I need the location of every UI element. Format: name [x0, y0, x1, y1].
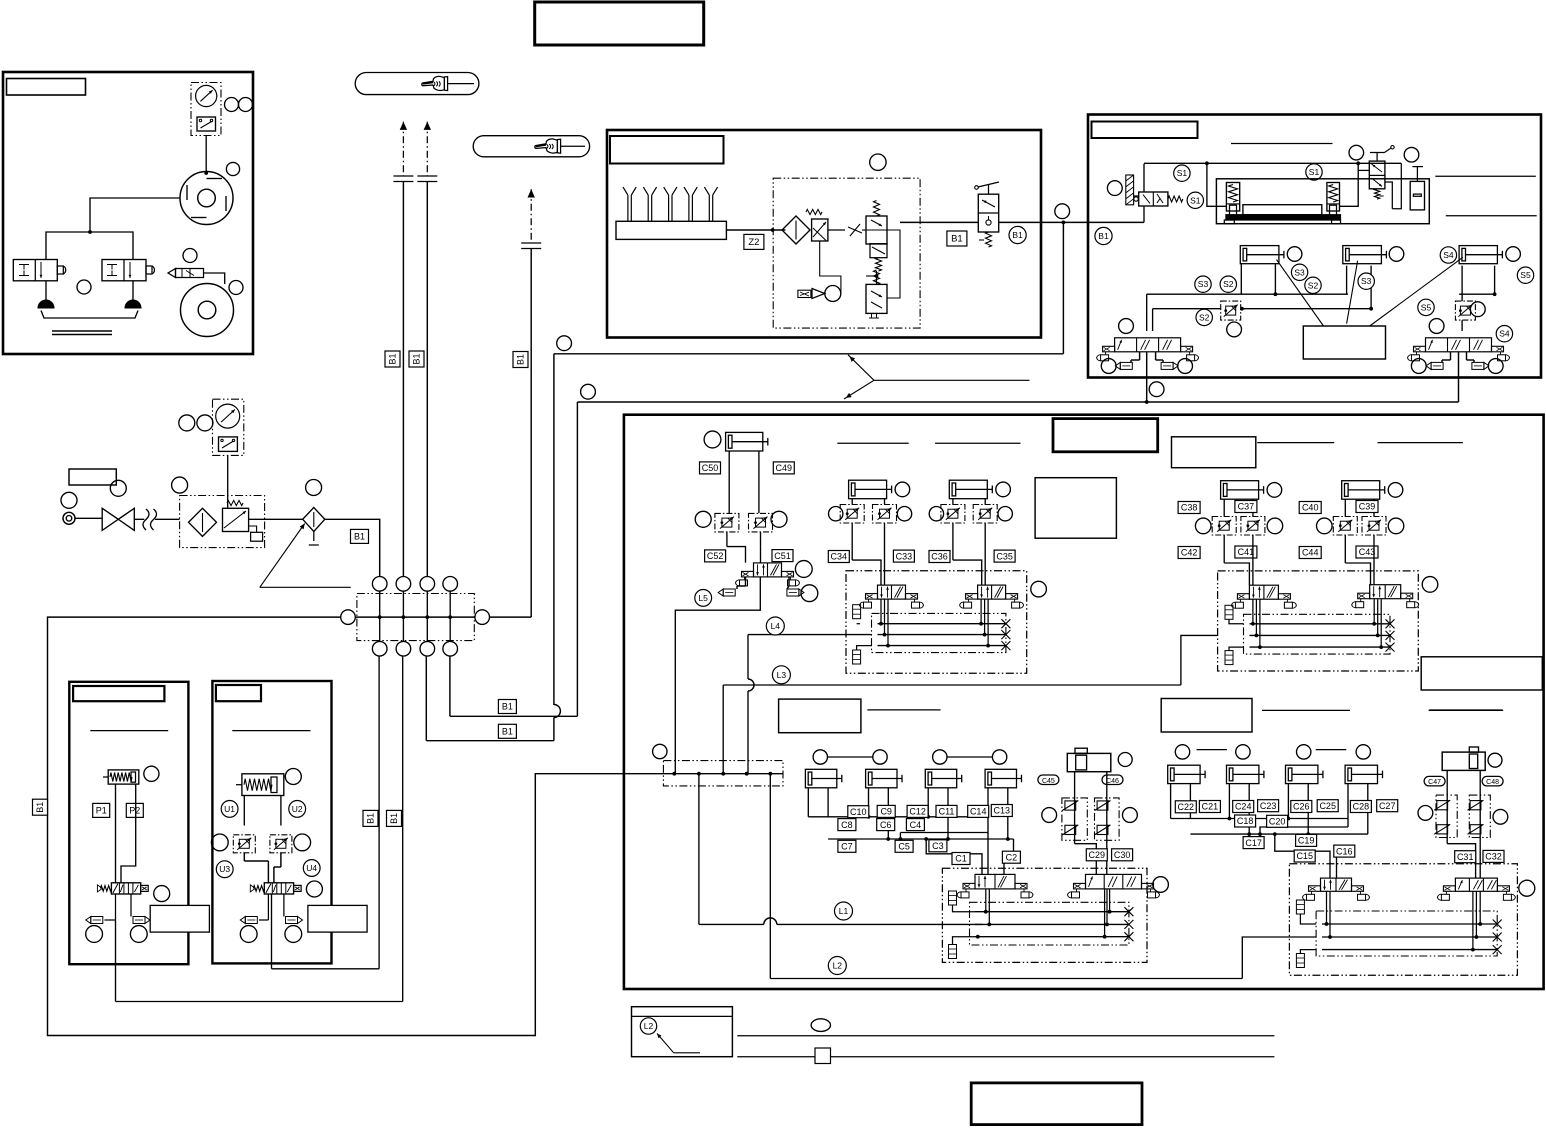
C labels left cluster [848, 806, 869, 818]
B1 riser 2 (to manifold port3 top) [426, 182, 428, 577]
small cylinder [1410, 181, 1424, 210]
manifold left port [341, 610, 356, 625]
bus plug X [1386, 619, 1395, 628]
flow controls [1333, 517, 1357, 536]
wire B1 inside box [1089, 221, 1144, 223]
manifold port 2 top [396, 577, 411, 592]
svg-text:C7: C7 [841, 842, 853, 852]
pointer lines [1277, 260, 1324, 326]
label box U [216, 685, 261, 701]
svg-text:L1: L1 [839, 906, 849, 916]
svg-text:B1: B1 [502, 727, 513, 737]
svg-text:B1: B1 [366, 813, 376, 824]
regulator [223, 508, 249, 531]
svg-text:C19: C19 [1298, 836, 1315, 846]
B1 label [351, 529, 369, 543]
small cylinder 1345 [1345, 765, 1377, 783]
ladder wires right cluster [1170, 784, 1172, 819]
wire to blower [204, 273, 225, 284]
maintenance unit dash-dot box [773, 178, 920, 328]
L distribution manifold dash-dot [663, 761, 783, 786]
manifold port 1 top [372, 577, 387, 592]
valve outputs [1326, 891, 1328, 924]
legend ellipse [811, 1019, 830, 1032]
B1 circled left [1095, 227, 1112, 244]
svg-text:U3: U3 [219, 864, 230, 874]
svg-text:C26: C26 [1293, 802, 1310, 812]
manifold port 4 bottom [443, 641, 458, 656]
wire gauge to pump [205, 136, 207, 173]
cylinder at 1221 [1221, 481, 1259, 500]
bus plug X [1001, 619, 1010, 628]
balloon [1107, 181, 1122, 196]
bus plug X [1386, 643, 1395, 652]
svg-text:S5: S5 [1421, 302, 1432, 312]
svg-text:C35: C35 [996, 551, 1013, 561]
filter-regulator dash-dot [180, 496, 265, 548]
balloon above [870, 154, 886, 170]
manifold port 3 bottom [420, 641, 435, 656]
U1 U2 balloons [221, 801, 238, 818]
drop wires to clamp [1207, 163, 1227, 206]
svg-text:C6: C6 [880, 820, 892, 830]
L4 wire (bus2 ext) [748, 634, 872, 636]
wire pump to valves [90, 198, 180, 232]
valve U [253, 886, 264, 892]
blank rect mid-left [1035, 478, 1116, 539]
valve C51 [754, 563, 782, 577]
manifold port 1 bottom [372, 641, 387, 656]
svg-text:C31: C31 [1457, 852, 1474, 862]
cylinder at 949 [949, 480, 987, 499]
svg-text:P2: P2 [129, 806, 140, 816]
B1 arrow line 3 [530, 189, 532, 243]
bus plug X [1001, 630, 1010, 639]
valve group bottom-right [1289, 864, 1517, 976]
manifold right port [475, 610, 490, 625]
hand pointer note 2 [473, 136, 589, 157]
valve P [100, 886, 111, 892]
main station box (bottom) [624, 415, 1544, 989]
svg-text:C51: C51 [774, 551, 791, 561]
valve wire to S1 net [1358, 169, 1369, 171]
svg-text:C38: C38 [1181, 503, 1198, 513]
mufflers [1296, 900, 1304, 914]
valve C1/C2 [975, 874, 1015, 889]
clamp piston right [1327, 183, 1340, 212]
FC columns [1062, 798, 1087, 840]
svg-text:S2: S2 [1308, 280, 1319, 290]
svg-text:S1: S1 [1190, 195, 1201, 205]
transfer unit box U [212, 681, 331, 963]
rule below [1429, 709, 1502, 711]
svg-text:C41: C41 [1238, 547, 1255, 557]
left mufflers [853, 605, 861, 619]
small cylinder 985 [985, 769, 1016, 788]
svg-text:C44: C44 [1302, 548, 1319, 558]
svg-text:B1: B1 [502, 702, 513, 712]
B1 label far left [33, 799, 48, 815]
svg-text:C37: C37 [1238, 502, 1255, 512]
legend lines [737, 1035, 1274, 1037]
water separator [303, 508, 325, 532]
wire right loop [1385, 182, 1392, 209]
svg-text:C14: C14 [970, 807, 987, 817]
callout arrow [260, 586, 351, 588]
cylinder S2/S3 B [1343, 246, 1382, 264]
main wire to outlet valve [900, 221, 978, 223]
B1 riser 3 (to manifold right port) [530, 249, 532, 618]
bus plug X [1001, 641, 1010, 650]
internal wires [820, 241, 841, 294]
svg-text:C24: C24 [1235, 802, 1252, 812]
balloons U [306, 881, 322, 897]
rule [1231, 143, 1333, 145]
vertical cylinder C47/C48 [1442, 752, 1485, 770]
svg-text:C9: C9 [880, 807, 892, 817]
svg-text:S5: S5 [1520, 270, 1531, 280]
balloon above junction [1055, 204, 1070, 219]
svg-text:C32: C32 [1485, 852, 1502, 862]
inner manifold dash-dot [872, 613, 1006, 652]
svg-text:S3: S3 [1198, 279, 1209, 289]
clamping unit box (top-right) [1088, 115, 1541, 378]
title box top center [535, 2, 704, 45]
valve riser [1143, 206, 1145, 222]
svg-text:C12: C12 [909, 807, 926, 817]
label box [610, 136, 724, 164]
svg-text:L3: L3 [777, 670, 787, 680]
bus plug X [1386, 631, 1395, 640]
valve C51 output down to L-manifold [675, 577, 760, 774]
svg-text:C33: C33 [896, 551, 913, 561]
blank rect P [150, 905, 209, 932]
manifold port 3 top [420, 577, 435, 592]
svg-text:L2: L2 [644, 1021, 654, 1031]
svg-text:S1: S1 [1177, 168, 1188, 178]
svg-text:C42: C42 [1181, 548, 1198, 558]
manifold port 4 top [443, 577, 458, 592]
wires cyl to valve P [115, 784, 117, 883]
wire A junction to manifold [1062, 222, 1064, 353]
filter [189, 508, 217, 536]
svg-text:C52: C52 [707, 551, 724, 561]
svg-text:C30: C30 [1114, 850, 1131, 860]
valve assembly right (5/3) [1426, 338, 1492, 352]
clamp rail [1226, 215, 1341, 220]
rule U [232, 730, 310, 732]
B1 circled outside [1016, 235, 1018, 237]
S1 balloons [1174, 165, 1190, 181]
clamp assembly [1216, 179, 1429, 224]
small cylinder 925 [925, 769, 956, 788]
svg-text:C49: C49 [776, 463, 793, 473]
gauge unit dash-dot [213, 399, 244, 455]
cylinder S2/S3 A [1240, 246, 1279, 264]
svg-text:C22: C22 [1178, 802, 1195, 812]
wire to relief valve [862, 229, 866, 231]
wires to valve [851, 523, 853, 560]
svg-text:C23: C23 [1260, 801, 1277, 811]
sheet (two lines) [52, 330, 112, 332]
balloons above cylinders [813, 750, 827, 764]
manifold bus [355, 616, 475, 618]
flow controls [840, 505, 864, 524]
vacuum pump (top) [180, 172, 233, 225]
hand pointer note 1 [355, 73, 479, 95]
filter [782, 216, 810, 244]
svg-text:C4: C4 [910, 820, 922, 830]
wire P valve down [115, 920, 117, 1002]
P1 P2 labels [93, 803, 110, 817]
balloon [1404, 147, 1419, 162]
svg-text:C18: C18 [1237, 816, 1254, 826]
bottom title box [971, 1083, 1142, 1125]
roller valve S1 [1126, 175, 1134, 205]
B1 arrow line 1 [402, 122, 404, 176]
svg-text:B1: B1 [354, 532, 365, 542]
bus line [1250, 623, 1391, 625]
svg-text:C40: C40 [1302, 503, 1319, 513]
bus line [878, 634, 1006, 636]
inner manifold dash-dot [1244, 614, 1391, 654]
valve group bottom-left [942, 868, 1147, 962]
hose break [134, 518, 144, 520]
svg-text:Z2: Z2 [748, 237, 759, 248]
svg-text:C34: C34 [831, 552, 848, 562]
valve V1 (2/2) [13, 260, 57, 281]
U3 U4 balloons [216, 861, 233, 878]
valve outputs to buses [880, 599, 882, 624]
wire V1 to L1 [698, 774, 700, 925]
cylinder at 1342 [1342, 481, 1380, 500]
B1 box label [947, 231, 967, 246]
callout fork [848, 355, 874, 381]
valve group dash-dot box [1218, 571, 1419, 671]
wire B1 out of box [999, 221, 1089, 223]
small cylinder 1286 [1286, 765, 1318, 783]
small cylinder 866 [866, 769, 897, 788]
svg-text:S2: S2 [1223, 279, 1234, 289]
valve bottom-right B (3 pos) [1455, 878, 1497, 891]
valve C29/C30 (3 pos) [1086, 874, 1142, 889]
bus line [878, 623, 1006, 625]
svg-text:S1: S1 [1309, 167, 1320, 177]
S-labels left [1195, 276, 1211, 292]
flow controls U [233, 835, 255, 853]
B1 circled [1009, 226, 1026, 243]
L-manifold bus [663, 773, 783, 775]
valve bottom-right A [1321, 878, 1352, 891]
svg-text:B1: B1 [1098, 231, 1109, 241]
B1 label riser2 [409, 351, 424, 367]
station label box thick [1053, 419, 1158, 452]
outlet valve (manual 3/2) [978, 194, 998, 232]
balloons above right cluster [1175, 745, 1189, 759]
pick-up unit box P [69, 682, 188, 964]
wires FCs to valve U [243, 853, 245, 861]
wire network below cylinders [1240, 264, 1242, 295]
svg-text:C20: C20 [1269, 817, 1286, 827]
bus line [1250, 646, 1391, 648]
svg-text:C36: C36 [931, 552, 948, 562]
balloons [225, 98, 239, 112]
label box [7, 79, 86, 96]
B1 label riser3 [513, 352, 528, 368]
manifold port 2 bottom [396, 641, 411, 656]
S4 balloon left of cylC [1440, 247, 1456, 263]
valve lever [988, 185, 990, 194]
S3 balloon [1291, 264, 1307, 280]
mufflers [949, 891, 957, 905]
blank rect U [308, 905, 367, 932]
balloon [229, 281, 243, 295]
svg-text:C48: C48 [1486, 779, 1499, 786]
mufflers P [115, 894, 117, 920]
small reducer w spring [870, 244, 887, 258]
flow controls [1212, 517, 1236, 536]
valve V2 (2/2) [102, 260, 146, 281]
cylinder at 849 [849, 480, 887, 499]
air inlet port [63, 512, 75, 524]
B1 label riser1 [385, 351, 400, 367]
svg-text:S4: S4 [1499, 329, 1510, 339]
svg-text:C50: C50 [702, 463, 719, 473]
clamp piston left [1226, 183, 1239, 212]
label box [1092, 122, 1198, 139]
svg-text:L4: L4 [771, 621, 781, 631]
wire left port B1 supply loop [48, 617, 664, 1035]
svg-text:C28: C28 [1353, 802, 1370, 812]
svg-text:C11: C11 [939, 807, 955, 817]
cylinder S4/S5 C [1459, 246, 1497, 264]
L3 wire [723, 684, 1181, 686]
blow-off unit box [607, 130, 1041, 338]
cylC wires + FC [1461, 266, 1463, 301]
valve group dash-dot box [846, 571, 1027, 673]
wire to lubricator [249, 518, 303, 520]
blank small rect [69, 469, 116, 485]
svg-text:S2: S2 [1199, 312, 1210, 322]
svg-text:S3: S3 [1361, 276, 1372, 286]
flow controls [941, 505, 965, 524]
svg-text:C29: C29 [1089, 850, 1106, 860]
wires to valve [952, 523, 954, 560]
svg-text:C15: C15 [1296, 851, 1313, 861]
valve assembly left (5/3) [1115, 338, 1181, 352]
svg-text:C39: C39 [1359, 502, 1376, 512]
balloon between valves [77, 280, 91, 294]
wire V2 to L2 [769, 774, 771, 979]
svg-text:C25: C25 [1319, 801, 1336, 811]
blower (bottom-right) [181, 284, 234, 337]
spring cylinder U [242, 774, 284, 796]
svg-text:S3: S3 [1294, 267, 1305, 277]
B1 riser 1 (to manifold port2 top) [402, 182, 404, 577]
valves in group [878, 585, 906, 599]
B1 labels on risers [363, 810, 378, 826]
svg-text:C5: C5 [898, 842, 910, 852]
shutoff valve [102, 508, 118, 530]
legend square [815, 1048, 831, 1064]
clamp feet [1224, 220, 1234, 224]
svg-text:U1: U1 [224, 804, 235, 814]
balloons left of gauge [179, 415, 195, 431]
blow-off check valve [176, 269, 204, 278]
regulator valve [812, 219, 828, 241]
svg-text:C27: C27 [1379, 801, 1396, 811]
svg-text:C17: C17 [1245, 838, 1262, 848]
label rect mid-left [779, 699, 861, 733]
svg-text:U2: U2 [292, 804, 303, 814]
bus line [1250, 634, 1391, 636]
svg-text:C1: C1 [955, 854, 967, 864]
wires to valve [1344, 535, 1346, 563]
svg-text:U4: U4 [306, 863, 317, 873]
vertical cylinder C45/C46 [1067, 753, 1111, 771]
legend box L2 [632, 1007, 733, 1057]
wire U valve down [267, 920, 269, 969]
restrictor [850, 224, 860, 236]
svg-text:B1: B1 [1012, 230, 1023, 240]
svg-text:C3: C3 [932, 841, 944, 851]
machine unit box (top-left) [3, 72, 253, 354]
svg-text:L2: L2 [833, 961, 843, 971]
svg-text:C13: C13 [994, 806, 1011, 816]
label box P [73, 686, 164, 701]
FC columns [1436, 795, 1457, 837]
svg-text:B1: B1 [516, 354, 526, 365]
clamp bar [1243, 205, 1322, 215]
label rect mid-right [1161, 699, 1252, 733]
rules top [837, 442, 908, 444]
wire B manifold port4 to valve units [449, 656, 451, 716]
B1 arrow line 2 [426, 122, 428, 176]
long risers to manifold [378, 656, 380, 969]
balloons P [154, 886, 170, 902]
wire to manifold [325, 519, 380, 576]
svg-text:S4: S4 [1443, 250, 1454, 260]
carrier bracket [41, 311, 138, 319]
wires to valve [1223, 535, 1225, 563]
C labels right cluster [1175, 801, 1196, 813]
svg-text:P1: P1 [96, 806, 107, 816]
legs C47 [1446, 770, 1448, 843]
suction cups [45, 281, 47, 302]
lower valve (spring top) [866, 284, 887, 313]
risers down from valves [1146, 331, 1148, 338]
cylinder C49/C50 [704, 431, 721, 448]
ladder wires left cluster [807, 788, 809, 817]
svg-text:C16: C16 [1336, 846, 1353, 856]
wire S1 top [1144, 162, 1401, 164]
rules right [1435, 175, 1536, 177]
svg-text:C2: C2 [1006, 852, 1018, 862]
svg-text:B1: B1 [412, 353, 422, 364]
Z2 label [744, 234, 764, 249]
nozzle manifold comb [616, 221, 726, 239]
balloon inlet [61, 492, 77, 508]
bus line [878, 645, 1006, 647]
pressure gauge G1 with switch (dash-dot) [191, 83, 221, 136]
svg-text:C45: C45 [1042, 778, 1055, 785]
svg-text:B1: B1 [389, 813, 399, 824]
svg-text:B1: B1 [388, 353, 398, 364]
spring cylinder P [108, 770, 139, 784]
hand valve top right [1349, 145, 1364, 160]
blank rect right of label [1172, 437, 1256, 468]
valve outputs [985, 889, 987, 912]
